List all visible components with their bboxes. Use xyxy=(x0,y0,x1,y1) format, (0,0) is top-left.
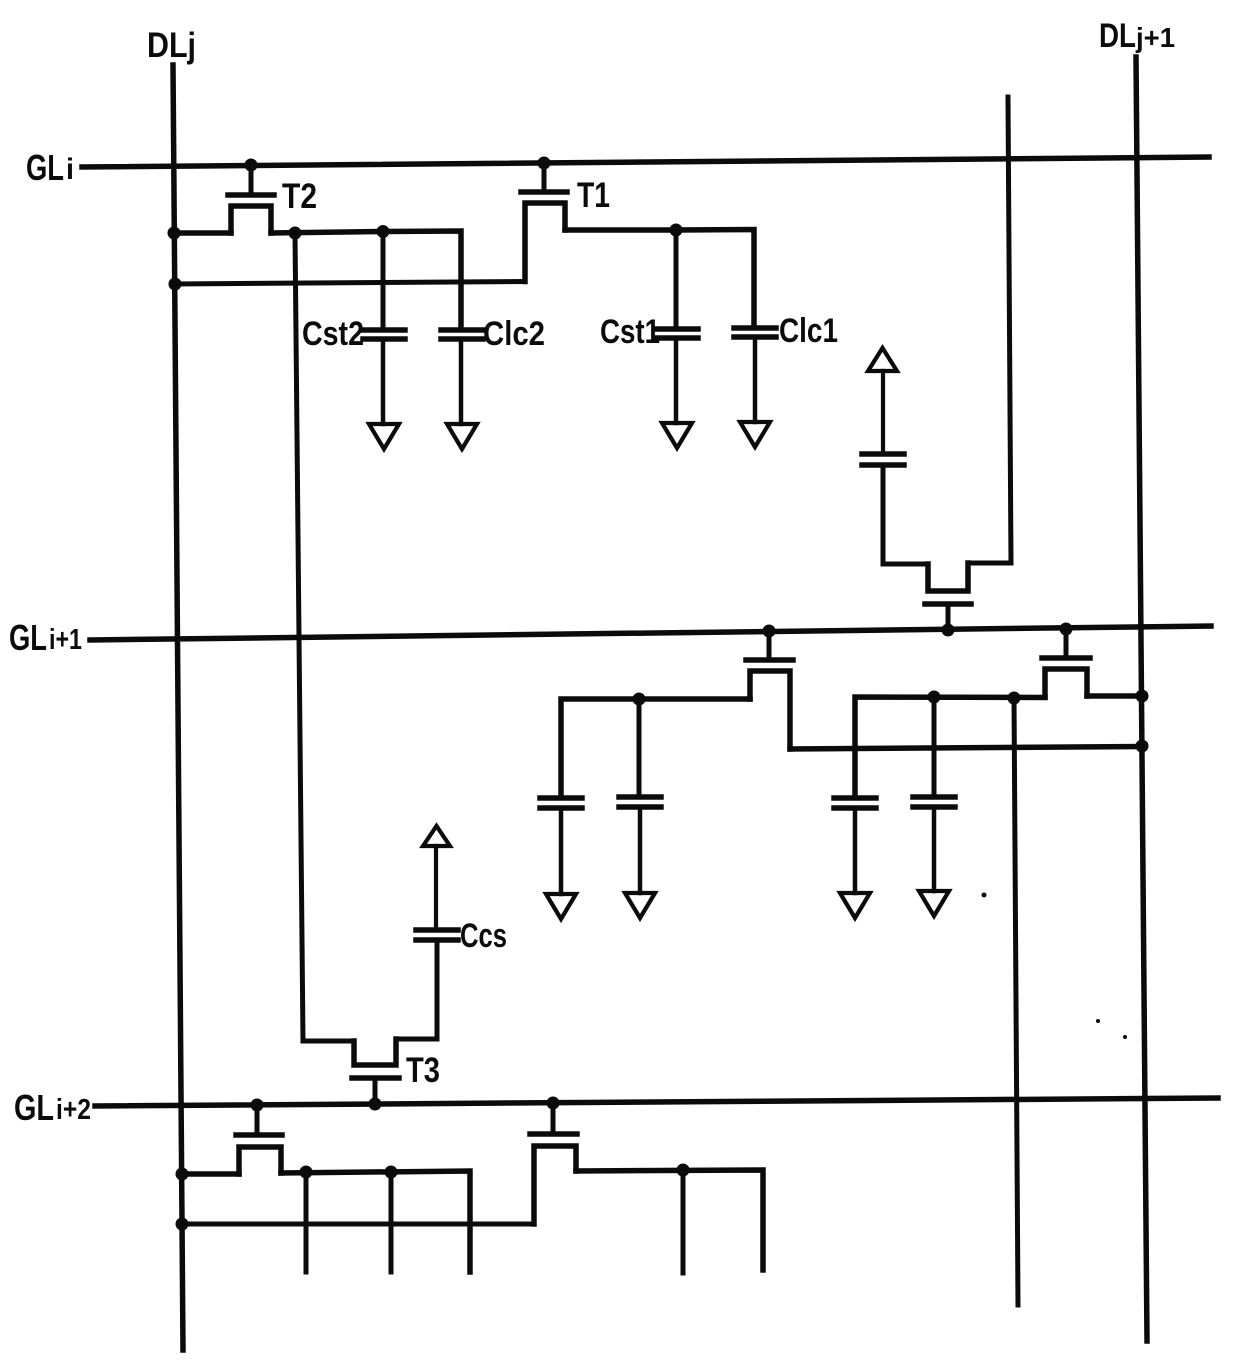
svg-text:Cst2: Cst2 xyxy=(302,315,364,353)
capacitor Clc1 xyxy=(734,328,776,422)
node T7 gate on GLi+2 xyxy=(251,1099,264,1112)
ground under cap x640 xyxy=(625,893,655,918)
data line DLj xyxy=(173,65,183,1350)
wire T5 drain to DLj+1 xyxy=(1087,693,1142,699)
capacitor row2 x640 xyxy=(619,797,661,893)
transistor T3 (inverted, above GLi+2) xyxy=(352,1039,399,1104)
wire T1 drain node to Clc1 xyxy=(565,230,754,326)
svg-text:DL: DL xyxy=(1099,17,1136,55)
node T1 gate on GLi xyxy=(538,157,551,170)
node T2 gate on GLi xyxy=(245,159,258,172)
wire T6 right lead to pixel line xyxy=(968,561,1011,566)
svg-text:j+1: j+1 xyxy=(1135,22,1175,53)
node T3 gate on GLi+2 xyxy=(369,1098,382,1111)
svg-text:T2: T2 xyxy=(282,177,317,216)
svg-text:T1: T1 xyxy=(577,176,610,215)
transistor T5 (row2 right, below GLi+1) xyxy=(1042,629,1090,697)
node DLj / row1 line A xyxy=(168,227,181,240)
wire Cst2 branch xyxy=(381,232,386,329)
ground under Cst2 xyxy=(369,424,399,449)
node stub x306 xyxy=(300,1166,313,1179)
wire T5 source node left xyxy=(855,697,1045,796)
wire T6 left lead to capacitor xyxy=(883,562,928,567)
svg-text:GL: GL xyxy=(9,617,47,658)
pixel electrode line from T2 drain down to T3 xyxy=(295,233,303,1041)
node cap branch x934 xyxy=(928,691,941,704)
wire node B row1 (DLj to T1 source) xyxy=(174,282,525,285)
ground under Clc1 xyxy=(740,422,770,447)
wire T3 left lead to pixel line xyxy=(303,1039,354,1044)
storage capacitor with arrow, col j+1 row i xyxy=(862,371,904,564)
node stub x683 xyxy=(677,1164,690,1177)
transistor T7 (row3 left) xyxy=(236,1105,282,1174)
wire T8 drain node xyxy=(576,1170,763,1270)
wire stub x683 xyxy=(681,1170,686,1273)
wire T7 drain node xyxy=(281,1171,470,1272)
ground under cap x934 xyxy=(919,891,949,916)
gate line GLi xyxy=(82,157,1209,167)
storage capacitor Ccs xyxy=(416,846,458,940)
wire node B row3 (DLj to T8 source) xyxy=(182,1222,534,1227)
svg-text:Clc2: Clc2 xyxy=(483,315,545,353)
wire T2 drain node to Clc2 xyxy=(271,231,461,328)
node pixel line branch row2 xyxy=(1008,692,1021,705)
node Cst2 branch xyxy=(377,225,390,238)
wire cap branch x934 xyxy=(932,697,937,795)
wire Cst1 branch xyxy=(674,230,679,325)
node DLj+1 / T5 drain xyxy=(1136,690,1149,703)
node DLj / row3 line A xyxy=(176,1168,189,1181)
transistor T4 (row2 left, below GLi+1) xyxy=(746,631,793,749)
wire DLj to T7 source xyxy=(182,1171,239,1177)
svg-text:i+2: i+2 xyxy=(56,1094,91,1126)
pixel electrode line (lower segment, col j+1) xyxy=(1014,698,1018,1305)
svg-text:GL: GL xyxy=(26,147,64,188)
pixel electrode line (upper segment, col j+1) xyxy=(1008,97,1011,563)
svg-text:Ccs: Ccs xyxy=(460,917,507,955)
wire cap branch x639 xyxy=(637,699,642,795)
wire stub x306 xyxy=(304,1172,309,1272)
transistor T2 xyxy=(228,165,274,233)
svg-text:Clc1: Clc1 xyxy=(779,312,838,350)
capacitor Clc2 xyxy=(441,330,483,424)
up arrow above capacitor xyxy=(868,348,897,371)
node stub x391 xyxy=(385,1166,398,1179)
svg-text:i+1: i+1 xyxy=(49,624,82,656)
svg-text:T3: T3 xyxy=(406,1051,440,1090)
wire T3 right lead up to Ccs xyxy=(396,943,437,1039)
node DLj+1 / T4 drain xyxy=(1136,740,1149,753)
svg-text:GL: GL xyxy=(14,1087,54,1128)
node T8 gate on GLi+2 xyxy=(547,1097,560,1110)
node cap branch x639 xyxy=(633,693,646,706)
node DLj / row1 line B xyxy=(169,278,182,291)
wire stub x391 xyxy=(389,1172,394,1272)
node DLj / row3 line B xyxy=(176,1218,189,1231)
node pixel line branch row1 xyxy=(289,227,302,240)
ground under cap x561 xyxy=(546,894,576,919)
transistor T1 xyxy=(521,163,567,282)
gate line GLi+2 xyxy=(95,1098,1218,1106)
capacitor row2 x934 xyxy=(913,797,955,891)
node T6 gate on GLi+1 xyxy=(942,624,955,637)
svg-text:DLj: DLj xyxy=(147,26,196,65)
node T5 gate on GLi+1 xyxy=(1060,623,1073,636)
ground under Clc2 xyxy=(447,424,477,449)
capacitor Cst2 xyxy=(363,330,405,424)
gate line GLi+1 xyxy=(90,626,1211,640)
transistor T6 (inverted, above GLi+1 right) xyxy=(925,563,971,630)
svg-text:i: i xyxy=(66,153,74,186)
ground under Cst1 xyxy=(662,423,692,448)
capacitor Cst1 xyxy=(656,329,698,423)
data line DLj+1 xyxy=(1136,57,1147,1341)
svg-text:Cst1: Cst1 xyxy=(600,313,660,351)
wire DLj to T2 source xyxy=(174,230,231,236)
wire T4 source node left xyxy=(561,699,750,796)
capacitor row2 x561 xyxy=(540,798,582,894)
node T4 gate on GLi+1 xyxy=(763,625,776,638)
ground under cap x855 xyxy=(840,893,870,918)
wire T4 drain to DLj+1 xyxy=(790,747,1142,750)
capacitor row2 x855 xyxy=(834,798,876,893)
transistor T8 (row3 right) xyxy=(530,1104,577,1224)
speck artifact 3 xyxy=(1123,1035,1127,1039)
speck artifact 2 xyxy=(1096,1019,1100,1023)
up arrow above Ccs xyxy=(423,826,450,846)
speck artifact 1 xyxy=(982,893,987,898)
node Cst1 branch xyxy=(670,224,683,237)
